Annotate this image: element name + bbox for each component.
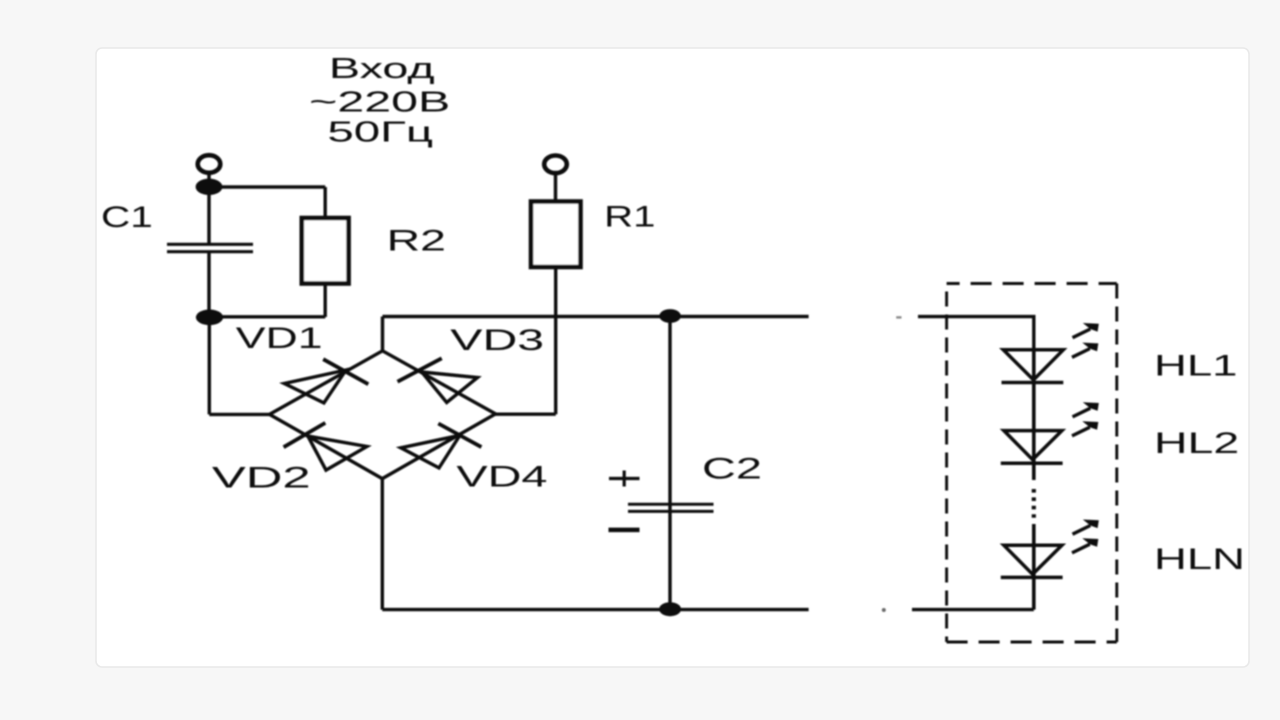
wire riser from bridge top	[381, 317, 384, 351]
wire bridge arm B-R	[382, 414, 495, 479]
svg-text:C1: C1	[101, 201, 153, 234]
LED HL1	[1002, 350, 1064, 383]
wire from bridge bottom	[381, 479, 384, 610]
diode VD2	[284, 423, 367, 470]
wire	[209, 185, 325, 188]
svg-text:VD1: VD1	[236, 322, 323, 355]
node junction dot B	[196, 310, 223, 326]
svg-text:~220В: ~220В	[309, 86, 450, 118]
terminal X2 (right input)	[544, 156, 567, 174]
label: HL2 arrows	[1072, 402, 1099, 436]
diode VD4	[401, 424, 482, 468]
wire	[668, 511, 671, 609]
wire bridge arm L-B	[270, 414, 383, 478]
white card	[96, 48, 1249, 667]
capacitor C2	[628, 504, 714, 511]
wire bridge arm L-T	[270, 351, 383, 415]
wire	[554, 173, 557, 201]
svg-text:HLN: HLN	[1154, 543, 1245, 576]
wire	[210, 315, 326, 318]
wire	[324, 284, 327, 318]
svg-text:HL2: HL2	[1154, 427, 1239, 460]
wire	[207, 187, 210, 244]
wire	[208, 317, 211, 414]
wire LED chain vertical upper	[1032, 350, 1036, 480]
resistor R2	[302, 218, 349, 284]
label: HLN arrows	[1072, 520, 1099, 553]
label: minus sign	[609, 528, 640, 533]
node junction dot A	[196, 179, 223, 195]
node junction dot C	[659, 309, 681, 323]
svg-text:VD3: VD3	[450, 324, 544, 357]
wire	[207, 173, 210, 180]
wire bottom rail	[382, 608, 808, 611]
svg-text:C2: C2	[702, 453, 762, 486]
wire	[207, 252, 210, 317]
diode VD1	[284, 359, 368, 403]
wire artifact dot bottom	[882, 608, 886, 612]
wire to LED chain top	[918, 317, 1034, 350]
svg-text:HL1: HL1	[1154, 350, 1237, 383]
svg-text:50Гц: 50Гц	[327, 116, 433, 148]
wire top rail	[383, 315, 809, 318]
wire to LED chain bottom	[912, 608, 1034, 611]
svg-text:R2: R2	[387, 225, 446, 258]
dashed enclosure box	[947, 284, 1117, 643]
svg-text:Вход: Вход	[329, 53, 435, 85]
resistor R1	[531, 202, 581, 268]
label: plus sign	[609, 471, 640, 487]
svg-text:VD4: VD4	[456, 461, 547, 494]
LED HLN	[1001, 545, 1063, 577]
wire bridge arm T-R	[383, 351, 496, 414]
wire	[554, 267, 557, 414]
LED HL2	[1001, 431, 1063, 464]
terminal X1 (left input)	[198, 155, 221, 173]
wire artifact dash top	[896, 316, 901, 318]
wire dotted continuation	[1032, 489, 1036, 521]
wire	[209, 413, 269, 416]
wire LED chain vertical lower	[1032, 524, 1036, 610]
capacitor C1	[167, 244, 253, 251]
wire	[324, 187, 327, 218]
node junction dot D	[659, 602, 681, 616]
diode VD3	[398, 358, 478, 402]
svg-text:VD2: VD2	[212, 462, 311, 495]
wire	[496, 413, 556, 416]
svg-text:R1: R1	[604, 201, 655, 234]
wire	[668, 317, 671, 513]
label: HL1 arrows	[1072, 323, 1099, 357]
